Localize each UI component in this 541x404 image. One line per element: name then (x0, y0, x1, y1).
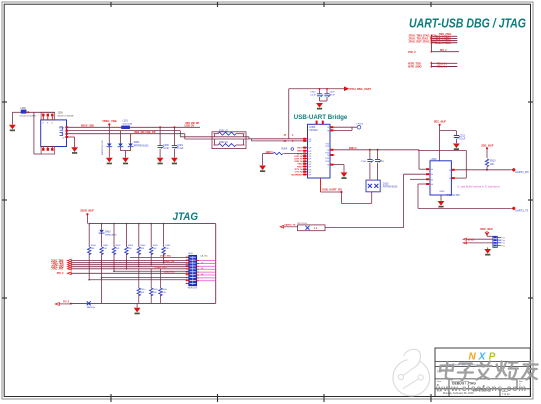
svg-text:(1: add Buffer resistor in IC: (1: add Buffer resistor in IC total laye… (457, 185, 499, 188)
svg-text:GND: GND (297, 151, 302, 153)
svg-text:10K: 10K (162, 292, 166, 294)
svg-text:UART-USB DBG / JTAG: UART-USB DBG / JTAG (409, 17, 526, 31)
svg-text:U310: U310 (431, 158, 438, 161)
svg-text:UART2_RX: UART2_RX (515, 170, 529, 174)
svg-text:10K: 10K (490, 164, 495, 166)
svg-text:R304: R304 (282, 149, 288, 151)
svg-text:VREG_USB: VREG_USB (102, 119, 116, 123)
svg-text:C312: C312 (459, 136, 465, 138)
svg-text:10K: 10K (153, 292, 157, 294)
svg-text:10K: 10K (116, 248, 120, 250)
svg-text:L301: L301 (123, 120, 129, 123)
svg-text:10K: 10K (91, 248, 95, 250)
svg-text:RST: RST (297, 148, 302, 150)
svg-text:TXD: TXD (325, 146, 330, 148)
svg-text:PU_3: PU_3 (63, 301, 69, 303)
svg-text:J400: J400 (188, 253, 194, 255)
svg-text:VBUS: VBUS (59, 128, 65, 130)
svg-text:TXD: TXD (325, 143, 330, 145)
svg-text:C303: C303 (329, 92, 335, 94)
svg-text:10K: 10K (103, 248, 107, 250)
svg-text:CP2102: CP2102 (309, 130, 318, 132)
svg-text:R51x 0 x: R51x 0 x (437, 66, 448, 69)
svg-text:SDIO_BUF: SDIO_BUF (80, 209, 94, 213)
svg-text:HDR 2X5: HDR 2X5 (188, 287, 198, 289)
svg-text:TXD: TXD (297, 164, 302, 166)
svg-text:www.elecfans.com: www.elecfans.com (435, 383, 527, 393)
svg-text:X: X (478, 351, 487, 362)
svg-text:MICRO USB AB: MICRO USB AB (58, 115, 74, 118)
svg-text:D301: D301 (134, 141, 140, 144)
svg-text:600/100M: 600/100M (123, 124, 133, 126)
svg-text:0.1uF: 0.1uF (459, 139, 465, 141)
svg-text:JTAG_RST: JTAG_RST (164, 271, 176, 274)
svg-text:D400: D400 (105, 231, 111, 233)
svg-text:USB-UART Bridge: USB-UART Bridge (294, 114, 348, 121)
svg-text:PRTR5V0U2X: PRTR5V0U2X (134, 145, 149, 147)
svg-text:10K: 10K (140, 248, 144, 250)
svg-text:USB_DN USB_DP: USB_DN USB_DP (134, 130, 156, 134)
svg-text:D310: D310 (383, 183, 389, 185)
svg-text:10K: 10K (128, 248, 132, 250)
svg-text:TXD: TXD (325, 158, 330, 160)
svg-text:MTR_SWO: MTR_SWO (408, 65, 421, 69)
svg-text:Pxx: Pxx (502, 240, 505, 242)
svg-text:R305 0: R305 0 (349, 148, 357, 150)
svg-text:SDC_BUF: SDC_BUF (434, 120, 447, 124)
svg-text:Pxx: Pxx (502, 237, 505, 239)
svg-text:GND: GND (440, 191, 445, 193)
svg-text:MMSZ4x: MMSZ4x (87, 307, 96, 309)
svg-text:4.7uF: 4.7uF (329, 94, 335, 96)
svg-text:x0 x0: x0 x0 (468, 238, 475, 241)
svg-text:JTAG_RST: JTAG_RST (51, 268, 64, 271)
svg-text:74LVC1T45: 74LVC1T45 (447, 194, 460, 197)
svg-text:U300: U300 (309, 126, 316, 129)
svg-text:CTS_N: CTS_N (295, 172, 303, 174)
svg-text:UART2_TX: UART2_TX (284, 224, 296, 227)
svg-text:VBUS_USB: VBUS_USB (81, 124, 94, 127)
svg-text:R302 22: R302 22 (219, 142, 228, 144)
svg-text:C301: C301 (178, 145, 184, 147)
svg-text:PIO_2: PIO_2 (440, 50, 447, 52)
svg-text:x P3V3: x P3V3 (356, 124, 364, 126)
svg-text:R301 22: R301 22 (219, 131, 228, 133)
svg-text:R310: R310 (490, 161, 496, 163)
svg-text:PIO_2: PIO_2 (408, 50, 416, 54)
svg-text:DTR_N: DTR_N (295, 158, 303, 160)
svg-text:0.1uF: 0.1uF (310, 94, 316, 96)
svg-text:PIO_2: PIO_2 (57, 272, 64, 275)
svg-text:RXD: RXD (297, 166, 302, 168)
svg-text:C310: C310 (361, 161, 367, 163)
svg-text:C311: C311 (379, 161, 385, 163)
svg-text:JTAG_SEL: JTAG_SEL (160, 255, 172, 258)
svg-text:MMSZ5V6T1G: MMSZ5V6T1G (102, 140, 104, 155)
svg-text:7 of 12: 7 of 12 (502, 393, 510, 396)
svg-text:PRTR5V0U2X: PRTR5V0U2X (383, 187, 398, 189)
svg-text:TXD: TXD (325, 161, 330, 163)
svg-text:Pxx: Pxx (502, 243, 505, 245)
svg-text:N: N (469, 351, 477, 362)
svg-text:SDC_BUF: SDC_BUF (480, 227, 493, 231)
svg-text:CA_INx: CA_INx (200, 255, 208, 258)
svg-text:USB_5V: USB_5V (185, 125, 195, 128)
svg-text:C302: C302 (310, 92, 316, 94)
svg-text:JTAG_TDO: JTAG_TDO (155, 266, 167, 269)
svg-text:Pxx: Pxx (502, 245, 505, 247)
svg-text:R50x 0 TCKx: R50x 0 TCKx (436, 42, 452, 45)
svg-text:SDC_BUF: SDC_BUF (481, 143, 494, 147)
svg-text:L300: L300 (20, 107, 26, 110)
svg-text:0.1uF: 0.1uF (178, 148, 184, 150)
svg-text:10K: 10K (141, 292, 145, 294)
svg-text:J300: J300 (58, 111, 64, 114)
svg-text:MMSZ4689: MMSZ4689 (105, 234, 117, 236)
svg-text:JTAG: JTAG (173, 211, 199, 223)
svg-text:C300: C300 (163, 145, 169, 147)
svg-text:P3V3_DBG_UART: P3V3_DBG_UART (350, 88, 372, 91)
svg-text:10K: 10K (165, 248, 169, 250)
svg-text:SUSPEND: SUSPEND (291, 174, 302, 176)
svg-text:USB_DM_DP: USB_DM_DP (185, 123, 200, 125)
svg-text:10K: 10K (153, 248, 157, 250)
svg-text:USB_UART_RX: USB_UART_RX (322, 188, 342, 192)
svg-text:JTAG_TDI: JTAG_TDI (164, 260, 175, 263)
svg-text:UART2_TX: UART2_TX (515, 208, 528, 212)
svg-text:4.7uF: 4.7uF (163, 148, 169, 150)
